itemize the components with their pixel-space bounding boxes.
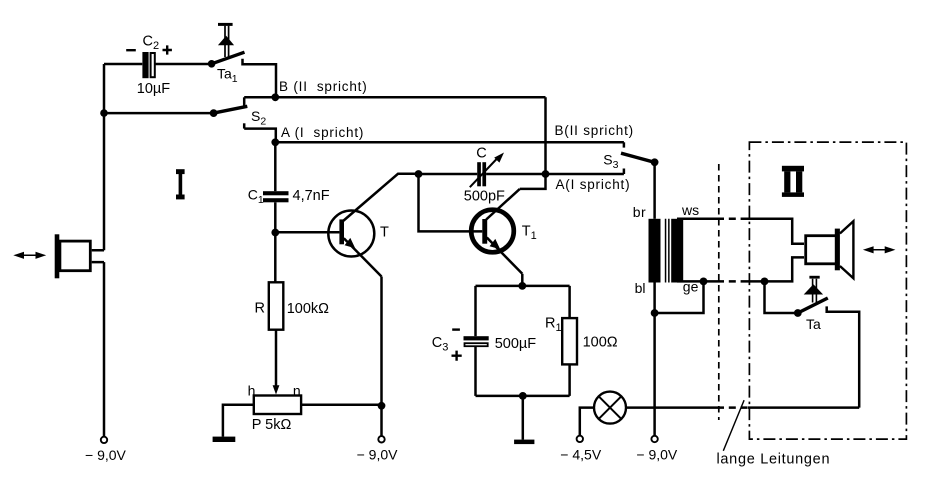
svg-text:S2: S2 <box>251 108 266 128</box>
wire <box>274 142 277 191</box>
wire <box>653 162 656 219</box>
wire <box>301 403 381 406</box>
capacitor C1 <box>248 187 330 207</box>
switch S2 <box>210 97 267 128</box>
wire A run <box>275 141 624 144</box>
wire <box>476 395 570 398</box>
capacitor C3 <box>432 286 536 396</box>
node <box>651 309 659 317</box>
svg-text:P 5kΩ: P 5kΩ <box>252 417 292 433</box>
svg-text:ws: ws <box>681 202 699 218</box>
station I label <box>176 169 185 199</box>
svg-text:T: T <box>380 225 389 241</box>
transistor T1 <box>471 189 537 274</box>
wire <box>476 285 570 288</box>
terminal -9.0V <box>85 437 127 463</box>
node <box>700 278 708 286</box>
wire <box>765 257 805 281</box>
wire <box>486 173 545 176</box>
wire ws <box>677 218 717 221</box>
node <box>761 278 769 286</box>
svg-text:10µF: 10µF <box>137 81 170 97</box>
wire ws dashed <box>717 218 747 221</box>
svg-text:C3: C3 <box>432 335 449 354</box>
wire <box>244 96 275 99</box>
node <box>542 170 550 178</box>
wire <box>380 406 383 436</box>
station II label <box>782 166 804 197</box>
svg-text:500pF: 500pF <box>464 189 505 205</box>
wire <box>244 129 276 143</box>
wire <box>827 306 860 407</box>
trimmer capacitor C <box>464 146 505 205</box>
svg-text:B (II spricht): B (II spricht) <box>279 79 368 94</box>
svg-text:− 9,0V: − 9,0V <box>85 447 127 463</box>
terminal -9.0V <box>357 436 399 462</box>
svg-text:− 9,0V: − 9,0V <box>357 447 399 463</box>
wire ge <box>747 280 765 283</box>
wire <box>765 281 798 313</box>
svg-text:4,7nF: 4,7nF <box>293 188 330 204</box>
svg-text:br: br <box>633 204 646 220</box>
transformer <box>633 202 699 296</box>
wire <box>419 173 478 176</box>
pushbutton Ta1 <box>208 24 245 85</box>
terminal -9.0V <box>636 436 678 463</box>
node <box>271 229 279 237</box>
ground <box>514 396 534 444</box>
wire <box>223 405 254 437</box>
node A <box>271 138 279 146</box>
node <box>378 402 386 410</box>
svg-text:S3: S3 <box>603 152 618 172</box>
node B <box>271 93 279 101</box>
sound arrow <box>863 246 896 253</box>
wire <box>546 173 624 176</box>
wire <box>103 64 106 250</box>
capacitor C2 <box>126 34 172 98</box>
loudspeaker I <box>55 234 104 278</box>
pushbutton Ta <box>794 277 828 332</box>
node <box>518 282 526 290</box>
wire <box>275 231 339 234</box>
wire <box>104 63 142 66</box>
wire <box>520 174 546 189</box>
wire <box>655 281 704 313</box>
long line divider dashed <box>718 164 720 420</box>
ground <box>213 437 236 442</box>
wire ge dashed <box>717 280 747 283</box>
wire <box>274 233 277 283</box>
svg-text:lange Leitungen: lange Leitungen <box>717 452 831 468</box>
svg-text:500µF: 500µF <box>495 336 537 352</box>
resistor R <box>255 282 330 329</box>
wire <box>104 112 210 115</box>
wire <box>653 283 656 436</box>
potentiometer P <box>252 396 301 434</box>
switch S3 <box>603 142 658 174</box>
svg-text:C1: C1 <box>248 187 264 207</box>
loudspeaker II <box>806 221 854 278</box>
node <box>415 170 423 178</box>
wire B run <box>275 96 545 99</box>
svg-text:R1: R1 <box>545 316 562 335</box>
terminal -4.5V <box>560 436 602 463</box>
svg-text:− 9,0V: − 9,0V <box>636 447 678 463</box>
svg-text:R: R <box>255 300 265 316</box>
svg-text:A(I spricht): A(I spricht) <box>556 177 631 192</box>
resistor R1 <box>545 286 618 396</box>
svg-text:Ta1: Ta1 <box>217 66 238 86</box>
svg-text:C: C <box>476 146 486 162</box>
svg-text:Ta: Ta <box>806 316 821 332</box>
svg-text:T1: T1 <box>522 224 537 243</box>
svg-text:100Ω: 100Ω <box>583 334 618 350</box>
wire dashed long line <box>717 406 748 409</box>
sound arrow <box>13 252 46 259</box>
svg-text:A (I spricht): A (I spricht) <box>281 125 364 140</box>
svg-text:B(II spricht): B(II spricht) <box>555 123 634 138</box>
wire <box>103 262 106 436</box>
label lange Leitungen <box>717 400 831 467</box>
wire <box>626 406 717 409</box>
node <box>519 392 527 400</box>
wire <box>155 63 209 66</box>
station II box <box>749 142 906 439</box>
wire <box>419 174 483 231</box>
wire <box>380 277 383 406</box>
svg-text:− 4,5V: − 4,5V <box>560 447 602 463</box>
svg-text:C2: C2 <box>143 34 160 53</box>
lamp <box>580 392 626 436</box>
wire B vertical <box>544 97 547 174</box>
wire <box>243 59 277 98</box>
wire <box>274 202 277 232</box>
node <box>100 109 108 117</box>
transistor T <box>328 174 418 277</box>
wire ws <box>747 219 804 244</box>
wiper arrow <box>248 330 301 399</box>
wire ge <box>677 280 717 283</box>
svg-text:bl: bl <box>635 280 646 296</box>
wire <box>748 406 859 409</box>
wire <box>521 274 524 286</box>
svg-text:100kΩ: 100kΩ <box>287 301 329 317</box>
